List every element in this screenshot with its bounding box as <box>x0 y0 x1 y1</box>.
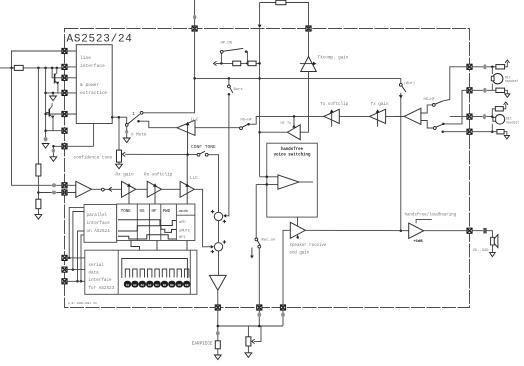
wire pin down to bottom rail <box>217 308 219 332</box>
wire Q1 base row to pin <box>55 77 65 79</box>
wire REC pin inward <box>450 116 470 118</box>
gain arrow HF Tx <box>293 116 295 127</box>
pin on top boundary x=194.6 <box>192 26 197 31</box>
svg-text:extraction: extraction <box>80 90 108 96</box>
wire conf tone to summing node 1 <box>208 155 218 212</box>
op-amp TXcomp gain <box>301 57 317 72</box>
svg-text:D3: D3 <box>170 284 174 287</box>
svg-text:handsfree/loudhearing: handsfree/loudhearing <box>405 212 457 217</box>
svg-text:Burs: Burs <box>234 87 243 92</box>
wire amp3 amp4 <box>162 188 181 190</box>
wire to mic transducer top <box>491 66 494 69</box>
wire ring line a <box>12 51 65 68</box>
svg-text:Tx softclip: Tx softclip <box>320 102 349 107</box>
transistor Q2 <box>48 109 50 117</box>
wire row y=146.3 with ground tap <box>65 145 94 147</box>
wire Burs down to summing node <box>226 94 229 216</box>
svg-text:end gain: end gain <box>290 251 310 256</box>
wire node1 to node2 <box>218 221 220 243</box>
switch HS-HF lower <box>433 127 436 130</box>
wire vertical x=45.6 <box>45 68 47 137</box>
ground arrow earpiece <box>214 355 221 360</box>
wire between HP resistors <box>241 62 248 64</box>
pin on left boundary y=185.3 <box>62 183 67 188</box>
ground arrow below pot <box>247 346 249 353</box>
svg-text:D1: D1 <box>155 284 159 287</box>
svg-text:+6dB: +6dB <box>413 239 423 244</box>
op-amp LLC upper (Tx line amp) <box>177 120 195 135</box>
wire top loop with resistor <box>260 3 309 29</box>
capacitor bead speaker <box>483 228 486 234</box>
svg-text:handset: handset <box>505 79 518 83</box>
wire HP to vertical <box>256 62 260 64</box>
pot wiper arrow <box>125 153 198 155</box>
wire HP branch with left arrow <box>216 62 233 64</box>
junction dot x38.4 y192.5 <box>37 191 40 194</box>
op-amp HF Tx <box>287 125 300 140</box>
switch Rx path <box>102 188 105 191</box>
capacitor bead row2 <box>483 88 487 93</box>
svg-text:PWD: PWD <box>163 210 171 214</box>
wire lower branch to MIC pin2 <box>443 90 469 124</box>
summing node 1 <box>214 212 222 220</box>
wire vertical net x=259.6 <box>259 29 261 177</box>
resistor R-chain lower <box>36 199 41 209</box>
resistor MIC row2 <box>496 88 505 92</box>
summing node 2 <box>214 243 222 251</box>
direction arrow at Rec_on <box>251 248 253 257</box>
microphone MIC handset <box>493 74 503 84</box>
switch CONF TONE <box>197 153 200 156</box>
block: serial data interface for AS2523 <box>85 250 197 294</box>
switch (Bur) <box>400 78 402 83</box>
wire speaker amp output to +6dB amp <box>305 229 408 231</box>
svg-text:interface: interface <box>87 221 111 226</box>
op-amp LLC lower <box>180 181 194 197</box>
gain arrow Rx gain <box>128 186 130 204</box>
svg-text:HS→HF: HS→HF <box>241 119 253 123</box>
bus wire 2 parallel box <box>73 212 84 270</box>
wire mic upper branch <box>421 105 433 113</box>
pin on bottom boundary x=259.3 <box>257 305 262 310</box>
wire contact2 to LLC amp <box>140 121 178 128</box>
loudspeaker 25..32ohm <box>491 237 495 245</box>
wire REC up to resistor <box>492 109 495 117</box>
svg-text:x Mute: x Mute <box>131 133 147 138</box>
block: parallel interface on AS2524 <box>84 205 117 243</box>
pot bottom ground <box>118 162 120 164</box>
connector comb teeth <box>125 269 189 278</box>
wire Bur down to speaker line <box>400 93 402 231</box>
ground stub y=92.9 <box>52 92 55 95</box>
wires pins to line-interface block <box>65 51 77 114</box>
wire REC bottom to row y=131.7 <box>491 124 493 132</box>
svg-text:aMUTE: aMUTE <box>179 229 191 233</box>
wire speaker to ground <box>491 245 493 253</box>
wire pin x=283 down <box>282 308 284 327</box>
switch HS-HF left arm <box>242 124 248 127</box>
pin on left boundary y=114 <box>62 111 67 116</box>
svg-text:on AS2524: on AS2524 <box>87 229 111 234</box>
wire handsfree amp output <box>299 181 313 183</box>
gain arrow Tx gain <box>377 112 379 127</box>
connector contacts <box>124 281 130 287</box>
op-amp Tx gain <box>370 109 386 123</box>
wire to ground <box>37 209 39 215</box>
wire bead to resistor <box>217 336 219 341</box>
bead row a <box>52 183 56 187</box>
pin on right boundary y=90.3 <box>467 88 472 93</box>
wire row y=130.7 <box>46 130 65 132</box>
switch HS-HF upper <box>432 104 435 107</box>
pin on left boundary y=269.6 <box>62 267 67 272</box>
pin on left boundary y=66.9 <box>62 64 67 69</box>
potentiometer confidence tone <box>117 150 122 162</box>
resistor R-chain upper <box>36 164 41 176</box>
switch HP_ON <box>220 53 222 63</box>
op-amp Rx gain <box>122 181 136 197</box>
ground arrow below resistor chain <box>35 215 42 220</box>
block: handsfree voice switching <box>267 143 318 217</box>
pin on bottom boundary x=283 <box>280 305 285 310</box>
wire ring line b with junctions <box>0 67 65 69</box>
svg-text:data: data <box>88 271 99 276</box>
switch Burs <box>228 78 230 85</box>
svg-text:←mode: ←mode <box>177 209 188 214</box>
wire pin x=259.3 down <box>258 308 260 327</box>
wire Q2 row to pin y=114 <box>46 113 65 115</box>
wire speaker feed external <box>472 231 492 238</box>
control stub +6dB <box>416 219 432 223</box>
svg-text:speaker receive: speaker receive <box>290 243 327 248</box>
svg-text:Rec_on: Rec_on <box>262 239 276 243</box>
svg-text:aPD: aPD <box>179 221 186 225</box>
wire mic amp to Tx line <box>395 115 404 117</box>
svg-text:interface: interface <box>88 278 112 283</box>
connector outline <box>122 259 188 279</box>
svg-text:CONF TONE: CONF TONE <box>191 144 216 150</box>
svg-text:HS: HS <box>140 210 146 214</box>
svg-text:A2: A2 <box>133 284 137 287</box>
svg-text:U.B. DURLJREL 96: U.B. DURLJREL 96 <box>68 302 97 305</box>
wire handsfree input 1 <box>260 176 278 178</box>
wire REC row external <box>472 116 492 118</box>
wire softclip to gain <box>339 115 369 117</box>
resistor earpiece <box>215 341 220 349</box>
op-amp speaker receive end gain <box>290 222 305 238</box>
op-amp handset mic <box>404 108 421 124</box>
wire emitter row y=92.9 <box>46 92 65 94</box>
pin on top boundary x=308.5 <box>306 26 311 31</box>
pin on right boundary y=116.6 <box>467 114 472 119</box>
wire handsfree input 2 <box>256 183 278 185</box>
gain arrow TXcomp <box>300 63 315 65</box>
svg-text:serial: serial <box>88 263 104 268</box>
mute switch arm <box>128 114 140 124</box>
wire earpiece amp to pin <box>217 290 219 307</box>
svg-text:handset: handset <box>506 120 519 124</box>
svg-text:EN: EN <box>185 284 189 287</box>
logic trace HF1 <box>118 235 176 239</box>
svg-text:for AS2523: for AS2523 <box>88 286 114 291</box>
bead on top stub <box>193 15 196 20</box>
ground arrow row2 <box>505 90 508 94</box>
mute contact 1 <box>140 111 143 114</box>
wire arrow drop onto boundary x=259.6 <box>259 3 261 25</box>
wire horizontal net y=78.4 <box>195 77 401 79</box>
wire +6dB output to pin <box>424 230 470 232</box>
svg-text:HS→HF: HS→HF <box>424 98 436 102</box>
chip boundary AS2523/24 outline <box>65 29 470 308</box>
wire row y=131.7 external <box>472 131 497 133</box>
wire mic transducer bottom to row2 <box>491 84 493 91</box>
gain arrow Tx softclip <box>331 112 333 127</box>
op-amp Tx softclip <box>324 109 339 123</box>
potentiometer volume <box>247 326 249 337</box>
wire upper branch to MIC pin1 <box>443 67 470 101</box>
gain arrow LLC lower from conf tone <box>186 155 188 204</box>
svg-text:HP_ON: HP_ON <box>221 42 232 46</box>
svg-text:A4: A4 <box>148 284 152 287</box>
wire resistor to ground <box>217 349 219 355</box>
pin on bottom boundary x=217.8 <box>215 305 220 310</box>
op-amp earpiece driver <box>209 275 226 290</box>
wire handsfree box to speaker amp <box>297 217 299 238</box>
wire Rx input row a <box>12 68 76 185</box>
resistor REC lower <box>497 130 504 134</box>
svg-text:confidence tone: confidence tone <box>74 155 113 160</box>
svg-text:TONE: TONE <box>121 210 132 214</box>
table column dividers <box>137 204 195 241</box>
svg-text:25..32Ω: 25..32Ω <box>473 249 490 253</box>
wire LLC upper output to HS/HF switch <box>195 127 241 129</box>
svg-text:EARPIECE: EARPIECE <box>192 341 213 346</box>
svg-text:TXcomp. gain: TXcomp. gain <box>318 56 349 61</box>
ground arrow REC lower <box>504 132 507 136</box>
resistor HP 2 <box>248 61 256 66</box>
wire amp2 amp3 <box>136 188 147 190</box>
bus wire 3 parallel box <box>78 231 85 281</box>
wire TXcomp vertical x=308.5 <box>300 29 308 133</box>
resistor top loop <box>276 0 286 4</box>
wire speaker amp input from pin <box>283 230 290 307</box>
capacitor bead REC <box>483 114 487 119</box>
svg-text:D2: D2 <box>163 284 167 287</box>
table to serial box connections <box>131 241 187 251</box>
mute contact 2 dot <box>137 120 140 123</box>
svg-text:HF1: HF1 <box>179 236 186 240</box>
pot wiper <box>254 326 261 341</box>
wire MIC row1 external <box>472 66 496 68</box>
svg-text:& power: & power <box>80 82 100 88</box>
svg-text:HF Tx: HF Tx <box>281 122 292 126</box>
pin on right boundary y=230.7 <box>467 228 472 233</box>
gain arrow into LLC upper <box>187 125 189 155</box>
wire block-bottom tap x=93.6 <box>93 124 95 147</box>
bottom rail wire <box>218 325 283 327</box>
bus wire 4 parallel box <box>81 235 84 281</box>
junction dots on line b <box>10 67 13 70</box>
wire amp1 to switch <box>92 188 102 190</box>
op-amp +6dB <box>409 223 424 238</box>
arrow to line REC <box>503 104 506 109</box>
wire LLC output to summing node 2 <box>194 189 211 247</box>
wire block output to mute common <box>111 116 114 119</box>
block: line interface & power extraction <box>76 45 112 124</box>
capacitor bead row1 <box>483 64 487 69</box>
resistor REC upper <box>495 107 503 111</box>
svg-text:(Bur): (Bur) <box>404 81 415 86</box>
mute switch common contact <box>125 124 128 127</box>
resistor line feed <box>14 65 23 70</box>
pin on left boundary y=77.8 <box>62 75 67 80</box>
wire input2 down to Rec_on <box>255 184 257 238</box>
ground arrow below bead x=45.6 <box>42 144 49 149</box>
switch HS-HF left common <box>240 127 243 130</box>
svg-text:LLC: LLC <box>190 176 198 181</box>
wire node2 down to speaker amp <box>218 251 220 275</box>
svg-text:voice switching: voice switching <box>274 153 311 158</box>
pin on left boundary y=281.3 <box>62 279 67 284</box>
logic trace aPD <box>118 220 176 226</box>
gray bead on x=45.6 <box>44 137 48 141</box>
svg-text:Rx softclip: Rx softclip <box>144 173 173 178</box>
transistor Q1 <box>52 68 55 78</box>
svg-text:CK: CK <box>178 284 182 287</box>
svg-text:LLC: LLC <box>191 118 199 123</box>
bus wire 1 parallel box <box>69 208 84 258</box>
op-amp handsfree <box>278 175 299 189</box>
resistor MIC row1 <box>496 65 505 69</box>
wire HF Tx output to x259.6 <box>260 131 288 133</box>
pin on left boundary y=257.9 <box>62 255 67 260</box>
wires pins to serial box <box>65 258 85 281</box>
wire row y=131.7 inward <box>441 130 444 133</box>
block: TONE/HS/HF/PWD mode table <box>117 204 195 241</box>
svg-text:handsfree: handsfree <box>281 147 304 152</box>
gain arrow Rx softclip <box>154 186 156 204</box>
serial box dividers <box>118 250 190 294</box>
wire vertical resistor chain x=38.4 <box>37 68 39 164</box>
wire MIC row2 external <box>472 89 496 91</box>
svg-text:interface: interface <box>80 63 105 69</box>
switch Rec_on <box>255 238 258 241</box>
wire gain to handset amp <box>386 115 405 117</box>
op-amp Rx input <box>76 181 92 197</box>
wire Rx input row b <box>38 192 75 194</box>
pin on left boundary y=146.3 <box>62 144 67 149</box>
wire top stub x=194.6 above chip <box>194 0 196 29</box>
svg-text:AS2523/24: AS2523/24 <box>67 33 133 45</box>
bead below pin x=259.3 <box>257 312 261 317</box>
wire below resistor <box>37 176 39 199</box>
svg-text:line: line <box>80 55 91 61</box>
bead below earpiece pin <box>216 331 220 336</box>
svg-text:Rx gain: Rx gain <box>116 173 134 178</box>
pin on left boundary y=92.9 <box>62 90 67 95</box>
wire mic lower branch <box>421 121 434 129</box>
svg-text:Tx gain: Tx gain <box>371 102 389 107</box>
logic trace aMUTE <box>118 226 176 233</box>
pin on left boundary y=130.7 <box>62 128 67 133</box>
pin on right boundary y=131.7 <box>467 129 472 134</box>
wire switch to Tx line <box>249 116 324 124</box>
ground arrow below y=146 tap <box>50 157 57 162</box>
svg-text:HF: HF <box>152 210 158 214</box>
svg-text:A1: A1 <box>126 284 130 287</box>
svg-text:A3: A3 <box>141 284 145 287</box>
mute ground chain <box>126 126 128 130</box>
op-amp Rx softclip <box>147 181 161 197</box>
arrow to line row1 <box>505 62 508 67</box>
pin on left boundary y=192.5 <box>62 190 67 195</box>
receiver REC handset <box>495 115 505 125</box>
bead below pin x=283 <box>281 312 285 317</box>
junction dots on x=45.6 <box>44 92 47 95</box>
svg-text:parallel: parallel <box>87 213 108 218</box>
bead row b <box>52 191 56 195</box>
pot top wire to block <box>118 117 120 150</box>
wire Rec_on to bottom pin <box>258 248 260 308</box>
pin on left boundary y=51 <box>62 48 67 53</box>
wire contact1 to top pin via x=194.6 <box>143 111 195 113</box>
resistor HP 1 <box>233 61 241 66</box>
pin on right boundary y=66.8 <box>467 64 472 69</box>
